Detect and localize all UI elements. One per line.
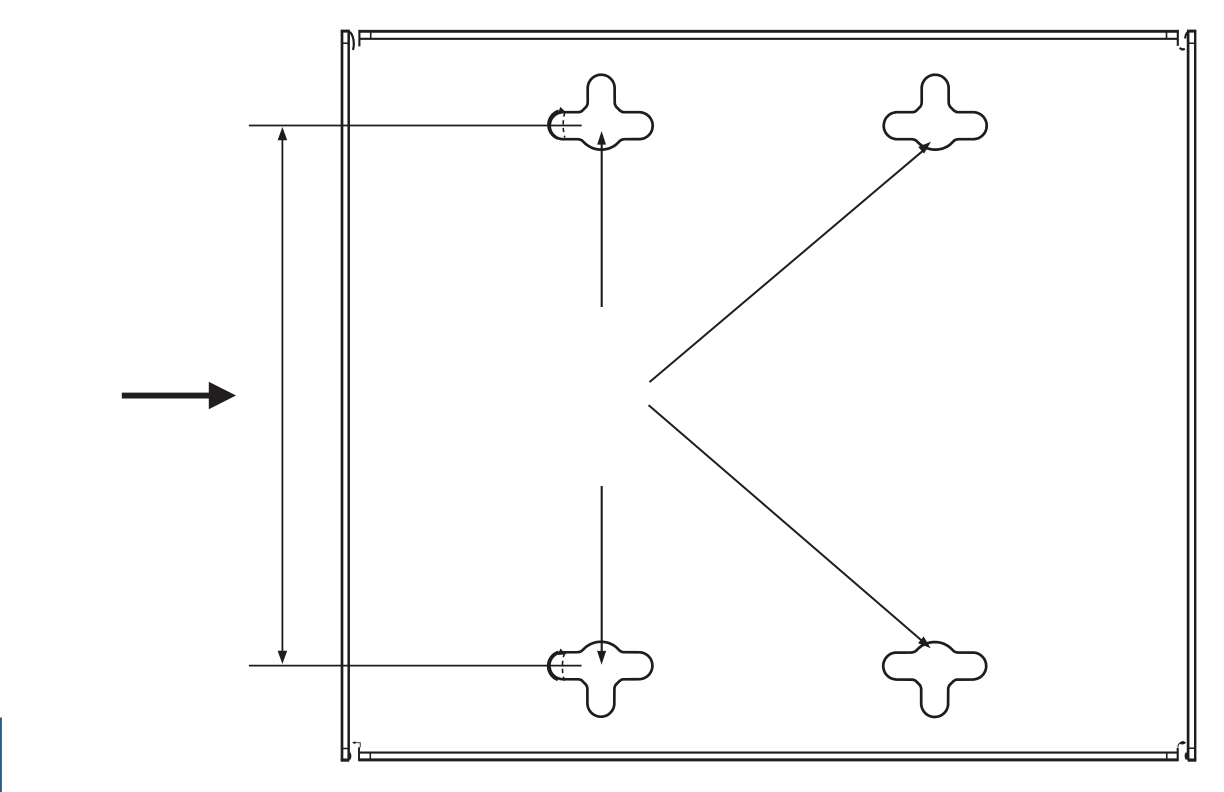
top rail right tick xyxy=(1166,32,1168,39)
top-left bend curve xyxy=(350,32,354,50)
big black arrow left xyxy=(122,382,236,409)
keyhole top-left xyxy=(550,75,653,150)
bottom rail inner line xyxy=(359,752,1177,754)
top-right smile mark xyxy=(1180,48,1185,50)
dimension arrow down xyxy=(278,651,288,664)
bottom rail right cap xyxy=(1177,748,1179,761)
left flange upper tick xyxy=(343,42,349,44)
top extension line xyxy=(249,125,582,127)
top rail left cap xyxy=(358,30,360,47)
left flange outer line xyxy=(341,30,344,761)
blue edge mark bottom-left xyxy=(0,718,2,792)
bottom-right hook mark xyxy=(1178,743,1181,748)
vertical arrow to top-left keyhole xyxy=(601,144,603,308)
right flange lower tick xyxy=(1188,747,1194,749)
keyhole bottom-left xyxy=(549,642,652,717)
vertical dimension line xyxy=(281,131,283,660)
right flange outer line xyxy=(1194,30,1196,761)
right flange top cap xyxy=(1187,30,1196,33)
left flange lower tick xyxy=(343,748,349,750)
dimension arrow up xyxy=(278,127,288,140)
vertical arrow to bottom-left keyhole xyxy=(601,486,603,652)
left flange top cap xyxy=(341,30,350,33)
bottom rail left tick xyxy=(369,753,371,759)
bottom rail right tick xyxy=(1166,753,1168,759)
right flange inner line xyxy=(1187,31,1190,760)
right flange bottom cap xyxy=(1188,758,1197,761)
curved rotate arrow on bottom-left keyhole xyxy=(548,649,566,682)
bottom-left flange bulge xyxy=(349,753,350,759)
bottom rail outer line xyxy=(358,758,1178,761)
keyhole top-right xyxy=(884,75,987,150)
bottom-left tiny arrow xyxy=(355,743,360,748)
right flange upper tick xyxy=(1188,42,1194,44)
bottom extension line xyxy=(249,665,582,667)
curved rotate arrow on top-left keyhole xyxy=(549,107,567,139)
diagonal arrow to top-right keyhole xyxy=(650,151,924,382)
left flange inner line xyxy=(347,31,350,760)
left flange bottom cap xyxy=(341,758,350,761)
bottom-right hook blob xyxy=(1181,742,1185,744)
top rail left tick xyxy=(370,32,372,39)
top rail right cap xyxy=(1177,30,1179,46)
top rail inner line xyxy=(359,38,1177,40)
diagonal arrow to bottom-right keyhole xyxy=(649,405,923,641)
bottom-right flange bulge xyxy=(1186,753,1187,759)
top rail outer line xyxy=(358,30,1178,33)
top-right bend curve xyxy=(1185,32,1187,38)
bottom rail left cap xyxy=(358,747,360,761)
keyhole bottom-right xyxy=(883,642,986,717)
